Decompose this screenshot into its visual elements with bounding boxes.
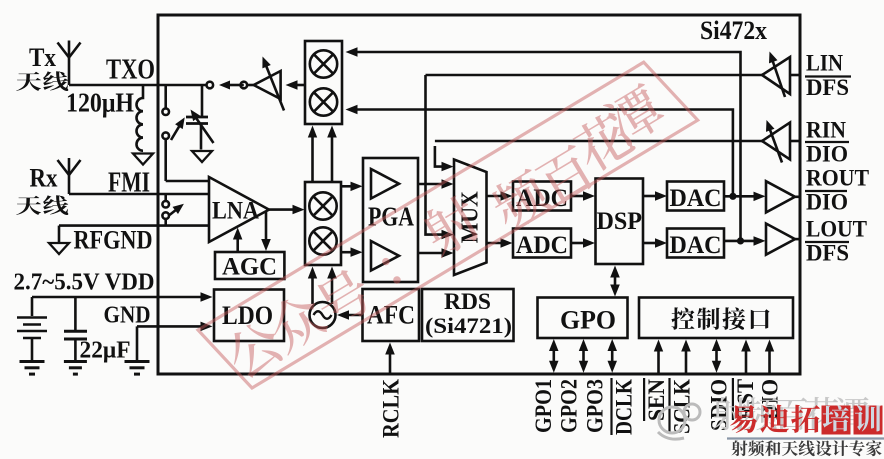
svg-text:DCLK: DCLK	[612, 379, 637, 435]
label MUX	[458, 191, 484, 244]
wire TXO	[69, 84, 207, 87]
wire DAC2 out	[724, 236, 766, 246]
mux	[454, 160, 487, 276]
svg-text:(Si4721): (Si4721)	[425, 313, 512, 338]
svg-text:120μH: 120μH	[66, 87, 134, 117]
arrow AGC to LNA	[233, 228, 243, 253]
wire LIN	[426, 74, 801, 77]
pin wire DIO	[765, 340, 774, 374]
ground battery	[20, 362, 45, 375]
wire DSP to DAC1	[643, 191, 667, 201]
wire PGA to MUX 2	[418, 248, 454, 258]
label FMI	[108, 168, 150, 199]
pin label SEN	[644, 378, 669, 421]
wire DAC1 out	[724, 192, 766, 202]
box DAC2	[667, 229, 724, 258]
wire ADC1 to DSP	[571, 191, 595, 201]
arrow LIN gain	[769, 52, 785, 98]
chip boundary Si472x	[158, 15, 800, 374]
amplifier PGA2	[371, 241, 399, 271]
pin label GPO1	[531, 379, 556, 433]
wire DSP-GPO	[610, 266, 620, 297]
pin label SDIO	[707, 379, 732, 431]
mixer box TX	[305, 41, 342, 124]
pin label DCLK	[612, 378, 637, 435]
mixer TX I	[310, 50, 337, 77]
label AGC	[222, 254, 277, 281]
mixer box RX	[305, 182, 341, 265]
wire PA to contact	[219, 81, 244, 90]
box ADC2	[513, 229, 571, 258]
label PGA	[368, 202, 414, 232]
svg-text:AGC: AGC	[222, 254, 277, 281]
amplifier LIN	[762, 57, 790, 94]
label 2.7~5.5V VDD	[14, 270, 155, 296]
wire osc to RX mixer 1	[308, 267, 317, 305]
svg-text:2.7~5.5V VDD: 2.7~5.5V VDD	[14, 270, 155, 296]
wire RFGND to LNA	[59, 226, 209, 242]
wire LO to TX mixer 1	[308, 126, 317, 183]
switch FMI	[162, 194, 169, 226]
pin wire GPO3	[608, 339, 618, 373]
ground capacitor	[64, 362, 87, 375]
svg-text:RDS: RDS	[444, 289, 491, 314]
trim capacitor TXO	[186, 85, 208, 150]
pin RIN/DIO	[805, 118, 849, 167]
label GND	[104, 303, 151, 329]
label 22μF	[80, 338, 131, 364]
svg-text:TXO: TXO	[106, 54, 155, 85]
svg-text:22μF: 22μF	[80, 338, 131, 364]
label ADC2	[516, 232, 568, 259]
svg-text:Rx: Rx	[30, 163, 58, 192]
pin wire SDIO	[712, 339, 721, 373]
wire PGA to MUX 1	[418, 179, 454, 189]
svg-text:GPO3: GPO3	[583, 379, 608, 433]
pin LIN/DFS	[805, 50, 851, 100]
label GPO	[560, 306, 616, 335]
wire LO to TX mixer 2	[327, 126, 337, 183]
svg-text:LOUT: LOUT	[806, 217, 867, 242]
amplifier LOUT	[766, 224, 800, 255]
svg-text:GPO2: GPO2	[557, 379, 582, 433]
svg-text:GND: GND	[104, 303, 151, 329]
label DSP	[597, 208, 643, 235]
svg-text:RIN: RIN	[806, 118, 846, 143]
arrow trim cap	[191, 110, 214, 144]
label RDS	[425, 289, 512, 338]
label Rx 天线	[16, 195, 68, 215]
box ADC1	[513, 182, 571, 211]
ground GND pin	[125, 362, 150, 375]
wire mixer to PGA 2	[341, 247, 363, 257]
arrow LNA to AGC	[261, 212, 271, 251]
label TXO	[106, 54, 155, 85]
svg-text:GPO1: GPO1	[531, 379, 556, 433]
mixer RX I	[309, 192, 336, 219]
pin wire RST	[741, 340, 751, 374]
arrow TX PA gain	[262, 57, 284, 111]
label LDO	[222, 301, 273, 330]
contact circle A	[207, 82, 214, 89]
label LNA	[212, 198, 259, 225]
wire LNA out	[269, 205, 305, 215]
amplifier ROUT	[766, 181, 800, 212]
svg-text:DSP: DSP	[597, 208, 643, 235]
Tx antenna	[58, 41, 81, 86]
wire FMI	[69, 193, 209, 196]
svg-text:DFS: DFS	[806, 75, 849, 100]
wire RIN to MUX	[435, 146, 454, 171]
box control interface	[639, 298, 793, 339]
svg-text:RCLK: RCLK	[379, 379, 404, 438]
label ADC1	[516, 185, 568, 212]
arrow RIN gain	[766, 120, 782, 163]
box PGA	[363, 158, 418, 282]
capacitor 22uF	[64, 297, 87, 361]
svg-text:DAC: DAC	[670, 232, 722, 259]
label Si472x	[700, 16, 767, 45]
amplifier RIN	[762, 123, 790, 160]
svg-text:ROUT: ROUT	[806, 166, 869, 191]
junction DAC2	[737, 237, 744, 244]
wire RCLK	[385, 343, 395, 375]
pin label GPO2	[557, 379, 582, 433]
watermark stamp 公众号：射频百花潭	[198, 62, 698, 388]
label 120μH	[66, 87, 134, 117]
wire DAC1 to TX mixer	[346, 105, 733, 197]
wire GND	[137, 322, 213, 361]
box LDO	[214, 290, 284, 342]
label AFC	[367, 301, 415, 330]
svg-text:Si472x: Si472x	[700, 16, 767, 45]
svg-text:MUX: MUX	[458, 191, 484, 244]
ground stub RFGND	[49, 243, 69, 254]
oscillator	[310, 302, 336, 328]
inductor 120uH	[133, 85, 153, 165]
box AFC	[363, 289, 420, 341]
mixer TX Q	[310, 88, 337, 115]
box GPO	[538, 298, 628, 339]
pin wire SCLK	[681, 340, 691, 374]
svg-text:SEN: SEN	[644, 379, 669, 421]
svg-text:DIO: DIO	[806, 142, 848, 167]
wire DAC2 to TX mixer	[346, 47, 741, 241]
box DSP	[596, 179, 644, 265]
junction DAC1	[729, 193, 736, 200]
label DAC1	[670, 185, 722, 212]
label DAC2	[670, 232, 722, 259]
label Tx	[29, 43, 56, 72]
svg-text:Tx: Tx	[29, 43, 56, 72]
wire mixer to PA	[286, 80, 306, 90]
wire MUX to ADC1	[487, 191, 513, 201]
pin wire GPO1	[549, 339, 559, 373]
pin label SCLK	[670, 378, 695, 434]
pin label RST	[733, 378, 758, 420]
pin label GPO3	[583, 379, 608, 433]
svg-text:ADC: ADC	[516, 232, 568, 259]
box AGC	[215, 252, 284, 279]
svg-text:RFGND: RFGND	[74, 226, 153, 255]
wire RIN	[435, 140, 800, 143]
wire AFC to osc	[337, 310, 363, 320]
amplifier LNA	[209, 177, 269, 242]
svg-text:DFS: DFS	[806, 241, 849, 266]
watermark logo bottom-right	[658, 397, 884, 456]
pin wire SEN	[654, 340, 663, 374]
label RFGND	[74, 226, 153, 255]
switch arm TXO	[171, 117, 185, 140]
wire osc to RX mixer 2	[327, 267, 337, 305]
svg-text:GPO: GPO	[560, 306, 616, 335]
wire VDD	[32, 292, 213, 302]
label Tx 天线	[16, 71, 68, 91]
switch TXO	[162, 85, 209, 181]
pin LOUT/DFS	[805, 217, 867, 266]
pin ROUT/DIO	[805, 166, 869, 215]
switch arm FMI	[170, 204, 184, 215]
mixer RX Q	[309, 227, 336, 254]
ground stub trim cap	[192, 151, 212, 162]
amplifier TX PA	[247, 71, 281, 99]
pin label RCLK	[379, 379, 404, 438]
box DAC1	[667, 182, 724, 211]
wire ADC2 to DSP	[571, 238, 595, 248]
box RDS	[422, 289, 514, 341]
wire DSP to DAC2	[643, 238, 667, 248]
pin wire GPO2	[579, 339, 588, 373]
battery	[17, 297, 47, 361]
svg-text:DIO: DIO	[806, 190, 848, 215]
wire LIN to MUX	[426, 75, 454, 239]
wire mixer to PGA 1	[341, 182, 363, 192]
pin label DIO	[757, 379, 782, 420]
wire MUX to ADC2	[487, 238, 513, 248]
label Rx	[30, 163, 58, 192]
amplifier PGA1	[371, 169, 399, 199]
svg-text:LIN: LIN	[806, 50, 843, 75]
Rx antenna	[58, 158, 81, 194]
label 控制接口	[671, 307, 769, 330]
svg-text:LNA: LNA	[212, 198, 259, 225]
svg-text:DAC: DAC	[670, 185, 722, 212]
contact circle B	[241, 82, 248, 89]
